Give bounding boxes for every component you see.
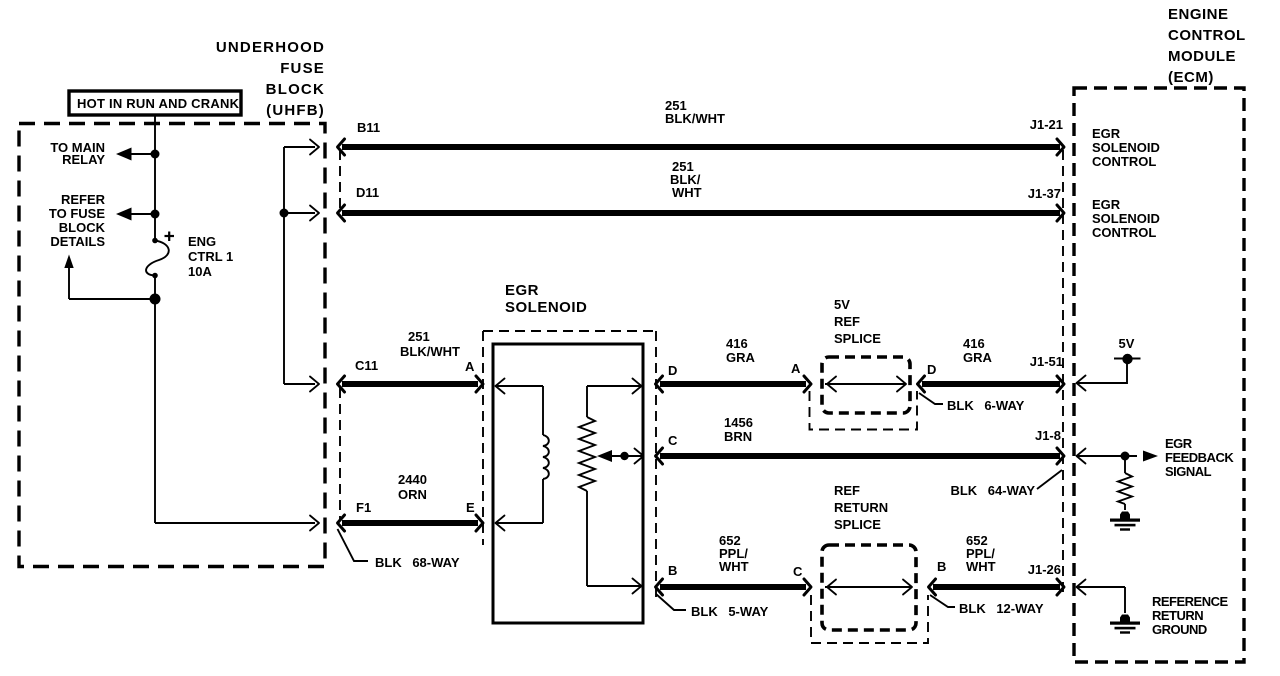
svg-text:J1-21: J1-21 [1030, 117, 1063, 132]
ECM dashed box [1074, 88, 1244, 662]
svg-text:A: A [791, 361, 801, 376]
fuse ENG CTRL 1 10A [146, 232, 233, 280]
ground (reference return) [1110, 615, 1140, 634]
svg-text:B: B [668, 563, 677, 578]
svg-text:SOLENOID: SOLENOID [1092, 211, 1160, 226]
svg-text:RETURN: RETURN [1152, 608, 1203, 623]
wire from fuse to F1 feed [155, 522, 315, 524]
UHFB internal feed wire [284, 140, 319, 385]
UNDERHOOD FUSE BLOCK (UHFB) label [216, 39, 325, 119]
EGR SOLENOID title [505, 282, 587, 316]
svg-text:(UHFB): (UHFB) [266, 102, 325, 119]
REF RETURN SPLICE label [834, 483, 888, 532]
svg-text:J1-51: J1-51 [1030, 354, 1063, 369]
svg-text:SIGNAL: SIGNAL [1165, 464, 1212, 479]
BLK 68-WAY connector label [338, 529, 460, 570]
net: REFERENCE RETURN GROUND [1077, 580, 1229, 638]
svg-text:RETURN: RETURN [834, 500, 888, 515]
svg-text:WHT: WHT [719, 559, 749, 574]
svg-text:CONTROL: CONTROL [1168, 27, 1246, 44]
svg-text:2440: 2440 [398, 472, 427, 487]
wire 251 BLK/WHT D11 to J1-37 [338, 159, 1065, 221]
ENGINE CONTROL MODULE (ECM) label [1168, 6, 1246, 86]
wire 2440 ORN F1 to solenoid E [338, 472, 484, 531]
HOT IN RUN AND CRANK box [69, 91, 241, 115]
J1 connector dash line [1062, 150, 1064, 594]
svg-text:WHT: WHT [672, 185, 702, 200]
wire 416 GRA solenoid D to splice A [656, 336, 812, 392]
junction on feed wire [280, 209, 289, 218]
svg-text:EGR: EGR [505, 282, 539, 299]
svg-text:C11: C11 [355, 358, 378, 373]
svg-text:416: 416 [963, 336, 985, 351]
svg-text:BLK 64-WAY: BLK 64-WAY [950, 483, 1035, 498]
svg-text:GROUND: GROUND [1152, 622, 1207, 637]
svg-text:J1-37: J1-37 [1028, 186, 1061, 201]
svg-text:ENGINE: ENGINE [1168, 6, 1229, 23]
svg-text:BLK/WHT: BLK/WHT [400, 344, 460, 359]
BLK 64-WAY connector label [950, 470, 1062, 498]
wire 652 PPL/WHT solenoid B to splice C [656, 533, 812, 595]
svg-text:BLOCK: BLOCK [266, 81, 325, 98]
wire branch to C11 [284, 377, 319, 392]
svg-text:C: C [668, 433, 678, 448]
wire branch to D11 [284, 206, 319, 221]
svg-text:REFER: REFER [61, 192, 106, 207]
splice S1 box [822, 357, 910, 413]
svg-text:E: E [466, 500, 475, 515]
wire 416 GRA splice D to J1-51 [918, 336, 1065, 392]
svg-text:D11: D11 [356, 185, 379, 200]
BLK 5-WAY connector label [656, 594, 769, 619]
node: REFER TO FUSE BLOCK DETAILS tap [49, 192, 160, 249]
node 5V supply [1077, 336, 1141, 391]
svg-text:REF: REF [834, 314, 860, 329]
solenoid connector dashed outline [483, 331, 656, 600]
svg-text:SPLICE: SPLICE [834, 331, 881, 346]
svg-text:10A: 10A [188, 264, 212, 279]
wire 251 BLK/WHT B11 to J1-21 [338, 98, 1065, 155]
solenoid resistor (position sensor) [579, 379, 642, 594]
svg-text:SOLENOID: SOLENOID [505, 299, 587, 316]
svg-text:CONTROL: CONTROL [1092, 154, 1156, 169]
wire 652 PPL/WHT splice B to J1-26 [929, 533, 1065, 595]
svg-text:BLK 12-WAY: BLK 12-WAY [959, 601, 1044, 616]
connector dash line B11-D11 [339, 150, 341, 211]
resistor wiper arrow [597, 449, 644, 464]
node: TO MAIN RELAY tap [50, 140, 159, 167]
svg-text:ENG: ENG [188, 234, 216, 249]
arrow into F1 [310, 516, 319, 531]
svg-text:J1-26: J1-26 [1028, 562, 1061, 577]
svg-text:SOLENOID: SOLENOID [1092, 140, 1160, 155]
svg-text:REFERENCE: REFERENCE [1152, 594, 1229, 609]
svg-text:UNDERHOOD: UNDERHOOD [216, 39, 325, 56]
wire branch to details arrow [64, 255, 155, 300]
net: EGR SOLENOID CONTROL (J1-37) [1092, 197, 1160, 240]
svg-text:SPLICE: SPLICE [834, 517, 881, 532]
wire 1456 BRN solenoid C to J1-8 [656, 415, 1065, 464]
svg-text:HOT IN RUN AND CRANK: HOT IN RUN AND CRANK [77, 96, 240, 111]
resistor to ground (feedback divider) [1118, 456, 1132, 510]
svg-text:DETAILS: DETAILS [50, 234, 105, 249]
svg-text:F1: F1 [356, 500, 371, 515]
svg-text:BRN: BRN [724, 429, 752, 444]
BLK 6-WAY connector outline [810, 391, 1025, 430]
svg-text:251: 251 [408, 329, 430, 344]
svg-text:C: C [793, 564, 803, 579]
svg-text:ORN: ORN [398, 487, 427, 502]
svg-text:A: A [465, 359, 475, 374]
svg-text:MODULE: MODULE [1168, 48, 1236, 65]
solenoid pin labels [668, 363, 678, 578]
svg-text:EGR: EGR [1092, 126, 1121, 141]
svg-text:5V: 5V [1119, 336, 1135, 351]
net: EGR SOLENOID CONTROL (J1-21) [1092, 126, 1160, 169]
svg-text:GRA: GRA [963, 350, 993, 365]
splice S2 box [822, 545, 916, 630]
wire from HOT box down to fuse [154, 116, 156, 241]
svg-text:1456: 1456 [724, 415, 753, 430]
net: EGR FEEDBACK SIGNAL [1077, 436, 1235, 479]
ground (EGR feedback) [1110, 512, 1140, 531]
svg-text:FUSE: FUSE [280, 60, 325, 77]
svg-text:J1-8: J1-8 [1035, 428, 1061, 443]
svg-text:BLOCK: BLOCK [59, 220, 106, 235]
solenoid coil L1 [496, 379, 549, 531]
svg-text:BLK 68-WAY: BLK 68-WAY [375, 555, 460, 570]
svg-text:CONTROL: CONTROL [1092, 225, 1156, 240]
svg-text:FEEDBACK: FEEDBACK [1165, 450, 1234, 465]
EGR solenoid box [493, 344, 643, 623]
svg-text:BLK 6-WAY: BLK 6-WAY [947, 398, 1025, 413]
svg-text:CTRL 1: CTRL 1 [188, 249, 233, 264]
svg-text:TO FUSE: TO FUSE [49, 206, 105, 221]
svg-text:BLK/WHT: BLK/WHT [665, 111, 725, 126]
svg-text:EGR: EGR [1165, 436, 1193, 451]
wire 251 BLK/WHT C11 to solenoid A [338, 329, 484, 392]
left fuse-block dashed box [19, 124, 325, 567]
connector dash line C11-F1 [339, 388, 341, 520]
svg-text:B11: B11 [357, 120, 380, 135]
svg-text:(ECM): (ECM) [1168, 69, 1214, 86]
svg-text:GRA: GRA [726, 350, 756, 365]
svg-text:D: D [927, 362, 936, 377]
BLK 12-WAY connector outline [811, 595, 1044, 643]
svg-text:EGR: EGR [1092, 197, 1121, 212]
junction below fuse [150, 294, 161, 305]
svg-text:B: B [937, 559, 946, 574]
svg-text:REF: REF [834, 483, 860, 498]
svg-text:RELAY: RELAY [62, 152, 105, 167]
svg-text:D: D [668, 363, 677, 378]
svg-text:BLK 5-WAY: BLK 5-WAY [691, 604, 769, 619]
svg-text:WHT: WHT [966, 559, 996, 574]
5V REF SPLICE label [834, 297, 881, 346]
wire below fuse [154, 276, 156, 524]
svg-text:5V: 5V [834, 297, 850, 312]
svg-text:416: 416 [726, 336, 748, 351]
